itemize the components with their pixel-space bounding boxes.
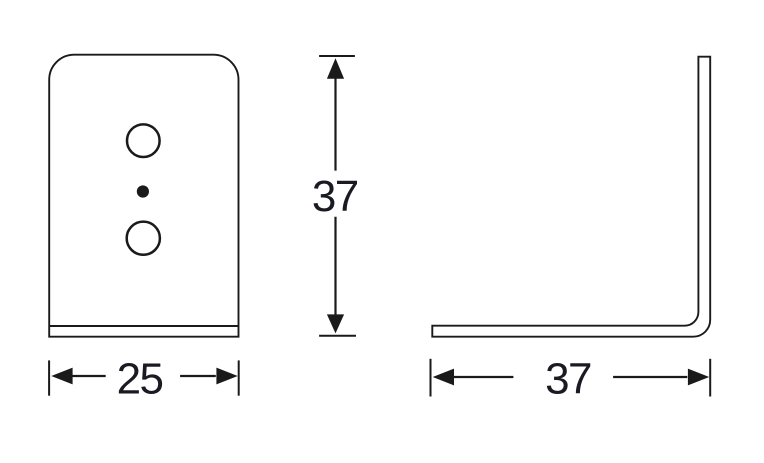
svg-text:37: 37 [545, 354, 591, 403]
svg-text:25: 25 [117, 354, 163, 403]
svg-text:37: 37 [312, 172, 358, 221]
